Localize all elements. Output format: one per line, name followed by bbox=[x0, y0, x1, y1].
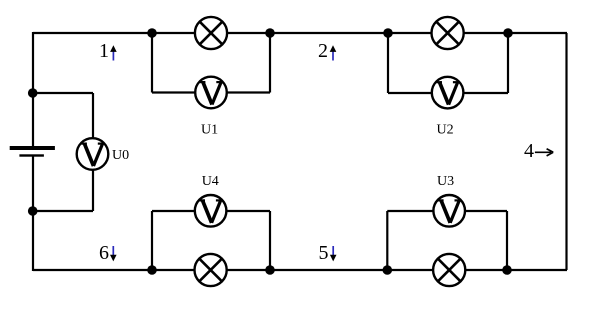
svg-text:5: 5 bbox=[319, 242, 329, 264]
wire: U2 branch bottom bbox=[388, 92, 508, 94]
node: bottom rail junction at U3 right bbox=[502, 265, 512, 275]
svg-text:1: 1 bbox=[99, 40, 109, 62]
wire: U1 branch right vertical bbox=[269, 33, 271, 93]
voltmeter U3 bbox=[433, 195, 465, 227]
node: bottom rail junction at U3 left bbox=[383, 265, 393, 275]
voltmeter U0 bbox=[77, 138, 109, 170]
svg-text:U1: U1 bbox=[201, 122, 218, 137]
wire: bottom rail bbox=[33, 269, 567, 271]
label current 5 down bbox=[319, 242, 337, 264]
node: left rail lower junction bbox=[28, 206, 38, 216]
lamp L4 bbox=[195, 254, 227, 286]
node: bottom rail junction at U4 right bbox=[265, 265, 275, 275]
svg-text:U2: U2 bbox=[437, 122, 454, 137]
node: top rail junction at U2 right bbox=[503, 28, 513, 38]
svg-text:U4: U4 bbox=[202, 174, 219, 189]
wire: U2 branch left vertical bbox=[387, 33, 389, 93]
lamp L3 bbox=[433, 254, 465, 286]
lamp L1 bbox=[195, 17, 227, 49]
wire: left rail upper (top corner to battery) bbox=[32, 32, 34, 146]
node: top rail junction at U2 left bbox=[383, 28, 393, 38]
wire: U2 branch right vertical bbox=[507, 33, 509, 93]
svg-text:U0: U0 bbox=[112, 148, 129, 163]
label current 6 down bbox=[99, 242, 117, 264]
wire: left rail lower (battery to bottom corner) bbox=[32, 156, 34, 271]
wire: U4 branch right vertical bbox=[269, 211, 271, 270]
wire: U4 branch left vertical bbox=[151, 211, 153, 270]
wire: right rail bbox=[565, 33, 567, 270]
wire: U3 branch right vertical bbox=[506, 211, 508, 270]
svg-text:4: 4 bbox=[524, 140, 534, 162]
wire: U3 branch top bbox=[387, 210, 507, 212]
node: top rail junction at U1 right bbox=[265, 28, 275, 38]
battery B1 bbox=[10, 146, 55, 157]
lamp L2 bbox=[432, 17, 464, 49]
wire: U0 branch vertical bbox=[92, 93, 94, 211]
node: bottom rail junction at U4 left bbox=[147, 265, 157, 275]
wire: U0 branch bottom bbox=[32, 210, 93, 212]
wire: U1 branch bottom bbox=[152, 91, 270, 93]
node: left rail upper junction bbox=[28, 88, 38, 98]
wire: U1 branch left vertical bbox=[151, 33, 153, 93]
svg-text:U3: U3 bbox=[437, 174, 454, 189]
voltmeter U4 bbox=[195, 195, 227, 227]
label current 1 up bbox=[99, 40, 117, 62]
svg-text:2: 2 bbox=[318, 40, 328, 62]
wire: U0 branch top bbox=[32, 92, 93, 94]
wire: U3 branch left vertical bbox=[386, 211, 388, 270]
label current 4 right bbox=[524, 140, 553, 162]
svg-text:6: 6 bbox=[99, 242, 109, 264]
node: top rail junction at U1 left bbox=[147, 28, 157, 38]
voltmeter U2 bbox=[432, 77, 464, 109]
label current 2 up bbox=[318, 40, 336, 62]
voltmeter U1 bbox=[195, 77, 227, 109]
wire: top rail bbox=[33, 32, 567, 34]
wire: U4 branch top bbox=[152, 210, 270, 212]
